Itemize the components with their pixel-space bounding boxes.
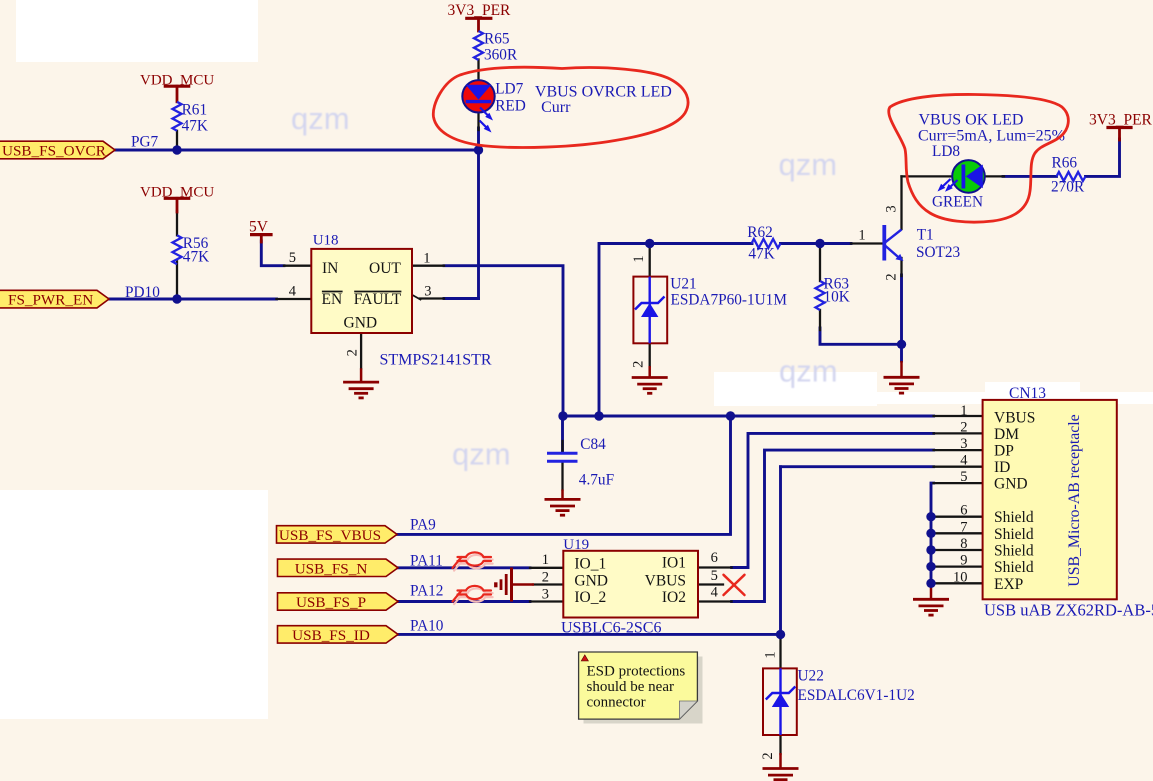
power port 3V3_PER top [467, 18, 491, 31]
wire R63 bottom to emitter junction [820, 328, 902, 344]
svg-text:GREEN: GREEN [932, 194, 983, 211]
svg-text:5: 5 [960, 469, 967, 485]
pin lead U21.1 [649, 244, 651, 277]
svg-text:270R: 270R [1051, 179, 1085, 196]
pin CN13.7 stub [931, 532, 983, 534]
ground under T1 [884, 361, 920, 393]
pin lead T1 base stub [851, 242, 883, 244]
pin CN13.3 stub [934, 449, 983, 451]
svg-text:qzm: qzm [779, 354, 838, 389]
svg-text:VBUS: VBUS [645, 573, 686, 590]
annotation ellipse VBUS OVRCR LED [433, 67, 688, 147]
ground under U22 [763, 753, 799, 781]
svg-text:5: 5 [289, 250, 296, 266]
svg-text:STMPS2141STR: STMPS2141STR [380, 352, 492, 369]
svg-text:1: 1 [631, 255, 647, 262]
svg-text:IO2: IO2 [662, 589, 686, 606]
svg-text:1: 1 [542, 552, 549, 568]
wire DP CN13 pin3 to U19 pin4 [732, 450, 934, 601]
no-ERC cross at U19 pin5 [724, 575, 745, 595]
svg-text:DM: DM [994, 426, 1019, 443]
svg-text:PA12: PA12 [410, 583, 443, 600]
svg-text:IO1: IO1 [662, 555, 686, 572]
svg-text:qzm: qzm [779, 147, 838, 182]
pin lead LD7 bottom [477, 102, 479, 131]
wire R66 to 3V3_PER stem [1086, 139, 1120, 176]
svg-text:C84: C84 [580, 436, 606, 453]
ground under C84 [545, 490, 581, 516]
capacitor C84 [547, 453, 578, 461]
svg-text:6: 6 [711, 550, 718, 566]
pin CN13.5 stub [934, 482, 983, 484]
pin lead R56 bottom [176, 261, 178, 299]
pin U19.3 stub [530, 600, 563, 602]
svg-text:3: 3 [960, 436, 967, 452]
svg-text:PD10: PD10 [125, 284, 160, 301]
svg-text:U21: U21 [670, 276, 696, 293]
svg-text:PA11: PA11 [410, 552, 443, 569]
svg-text:Curr: Curr [541, 99, 571, 116]
junction shield pin10 [926, 579, 935, 588]
pin lead R63 bottom [819, 310, 821, 330]
svg-text:4: 4 [289, 284, 297, 300]
svg-text:10K: 10K [824, 289, 850, 306]
svg-text:LD8: LD8 [932, 143, 960, 160]
wire 5V to IN [261, 241, 284, 266]
LED LD7 [462, 80, 494, 132]
pin lead R56 top [176, 211, 178, 235]
TVS diode U21 box [633, 277, 667, 344]
svg-text:360R: 360R [484, 47, 518, 64]
svg-text:LD7: LD7 [495, 81, 523, 98]
differential pair marker PA11 [453, 552, 493, 570]
pin lead C84 bottom [561, 463, 563, 490]
pin U18.3 slash mark [412, 295, 421, 300]
IC U19 box [563, 551, 698, 618]
junction R62/R63/T1 base [815, 239, 824, 248]
svg-text:47K: 47K [183, 249, 209, 266]
svg-text:SOT23: SOT23 [916, 244, 961, 261]
pin U19.5 stub [698, 583, 723, 585]
ground under U18 [343, 368, 379, 398]
pin lead R63 top [819, 244, 821, 282]
svg-text:Curr=5mA, Lum=25%: Curr=5mA, Lum=25% [918, 128, 1065, 145]
wire PA11 USB_FS_N [398, 566, 530, 569]
svg-text:USB_FS_P: USB_FS_P [296, 594, 366, 611]
white patch bottom-left [0, 490, 268, 719]
svg-text:2: 2 [542, 569, 549, 585]
svg-text:10: 10 [953, 569, 968, 585]
resistor R56 [173, 235, 182, 264]
power port VDD_MCU upper [165, 86, 188, 102]
net flag USB_FS_P [278, 593, 399, 611]
svg-text:3: 3 [424, 284, 431, 300]
resistor R62 [752, 239, 781, 248]
pin lead R65 bottom to LD7 [477, 60, 479, 86]
svg-text:3V3_PER: 3V3_PER [448, 2, 512, 19]
svg-text:Shield: Shield [994, 509, 1034, 526]
svg-text:EN: EN [322, 291, 343, 308]
svg-text:PA9: PA9 [410, 517, 436, 534]
sticky note ESD protections [579, 652, 703, 724]
svg-text:6: 6 [960, 503, 967, 519]
svg-text:Shield: Shield [994, 543, 1034, 560]
pin CN13.9 stub [931, 565, 983, 567]
resistor R65 [474, 31, 483, 60]
svg-text:ESDA7P60-1U1M: ESDA7P60-1U1M [671, 291, 788, 308]
svg-text:DP: DP [994, 443, 1014, 460]
svg-text:T1: T1 [917, 227, 934, 244]
wire main VBUS bus horizontal [563, 415, 934, 418]
net flag FS_PWR_EN [0, 290, 109, 308]
wire OUT to bus vertical [444, 266, 563, 416]
pin U18.4 EN stub [277, 298, 312, 300]
svg-text:GND: GND [994, 476, 1028, 493]
svg-text:USBLC6-2SC6: USBLC6-2SC6 [561, 620, 661, 637]
ground under CN13 shields [913, 584, 949, 615]
net flag USB_FS_N [278, 559, 399, 577]
svg-text:ESD protections: ESD protections [587, 664, 686, 680]
svg-text:VDD_MCU: VDD_MCU [140, 185, 214, 201]
wire PA10 USB_FS_ID [398, 633, 781, 636]
wire U21 junction to R62 [650, 242, 752, 245]
pin U19.2 stub [533, 583, 563, 585]
svg-text:2: 2 [884, 273, 900, 280]
svg-text:9: 9 [960, 553, 967, 569]
pin U19.4 stub [698, 600, 732, 602]
LED LD8 [938, 160, 985, 193]
svg-text:1: 1 [763, 651, 779, 658]
pin CN13.2 stub [934, 432, 983, 434]
svg-text:1: 1 [423, 250, 430, 266]
svg-text:USB_FS_N: USB_FS_N [295, 560, 368, 577]
svg-text:PG7: PG7 [131, 133, 159, 150]
svg-text:qzm: qzm [452, 437, 511, 472]
junction T1 emitter/R63/ground [897, 340, 906, 349]
pin U18.3 FAULT stub [420, 297, 444, 299]
svg-text:5V: 5V [249, 218, 269, 235]
svg-text:Shield: Shield [994, 526, 1034, 543]
junction bus/R62 riser [594, 411, 603, 420]
ground sideways at U19 pin2 [496, 568, 534, 602]
TVS diode U22 symbol [766, 668, 796, 735]
svg-text:2: 2 [960, 419, 967, 435]
svg-text:IN: IN [322, 260, 338, 277]
svg-text:4.7uF: 4.7uF [579, 472, 614, 489]
svg-text:8: 8 [960, 536, 967, 552]
svg-text:7: 7 [960, 519, 967, 535]
ground under U21 [632, 366, 668, 393]
wire LD7 cathode vertical down to FAULT row [477, 128, 480, 299]
svg-text:IO_2: IO_2 [574, 589, 606, 606]
wire PA12 USB_FS_P [398, 600, 530, 603]
svg-text:47K: 47K [182, 118, 208, 135]
junction PG7/R61 [172, 145, 181, 154]
net flag USB_FS_ID [278, 626, 399, 644]
svg-text:should be near: should be near [587, 679, 674, 695]
wire FS_PWR_EN horizontal [109, 298, 277, 301]
wire CN13 pin5 GND down shield chain [931, 483, 934, 584]
svg-text:4: 4 [711, 585, 719, 601]
pin lead U22.2 [779, 735, 781, 754]
svg-text:1: 1 [858, 228, 865, 244]
svg-text:USB_FS_ID: USB_FS_ID [292, 627, 370, 644]
pin CN13.8 stub [931, 549, 983, 551]
wire FAULT pin3 horizontal [444, 297, 479, 300]
pin CN13.6 stub [931, 516, 983, 518]
junction PD10/R56/EN [172, 294, 181, 303]
svg-text:RED: RED [495, 98, 526, 115]
svg-text:IO_1: IO_1 [574, 556, 606, 573]
svg-text:R61: R61 [182, 102, 208, 119]
svg-text:connector: connector [587, 694, 646, 710]
net flag USB_FS_VBUS [277, 526, 398, 544]
junction shield pin9 [926, 562, 935, 571]
white patch top-left [16, 0, 258, 62]
white patch behind CN13 title [985, 382, 1080, 404]
pin lead LD8 right [983, 175, 1004, 177]
svg-text:47K: 47K [748, 246, 774, 263]
svg-text:U22: U22 [798, 668, 824, 685]
net flag USB_FS_OVCR [0, 141, 115, 159]
TVS diode U22 box [763, 668, 797, 735]
differential pair marker PA12 [453, 586, 493, 604]
resistor R61 [173, 102, 182, 131]
pin lead LD8 left [902, 175, 964, 177]
svg-text:2: 2 [631, 361, 647, 368]
svg-text:U18: U18 [313, 232, 339, 248]
svg-text:FS_PWR_EN: FS_PWR_EN [8, 292, 93, 309]
svg-text:EXP: EXP [994, 576, 1023, 593]
wire ID vertical to CN13 pin4 [779, 467, 782, 635]
pin lead C84 top black part [561, 441, 563, 452]
pin lead R61 bottom [176, 131, 178, 150]
svg-text:USB_FS_VBUS: USB_FS_VBUS [279, 527, 381, 544]
svg-text:2: 2 [345, 349, 361, 356]
wire LED row to R66 [1003, 175, 1057, 178]
pin U18.1 OUT stub [412, 265, 444, 267]
resistor R66 [1057, 172, 1086, 181]
pin CN13.4 stub [934, 466, 983, 468]
wire PA9 USB_FS_VBUS to bus [397, 416, 731, 534]
junction shield pin8 [926, 545, 935, 554]
svg-text:FAULT: FAULT [354, 291, 402, 308]
junction LD7/OVCR/FAULT [474, 145, 483, 154]
svg-text:CN13: CN13 [1009, 385, 1046, 402]
svg-text:U19: U19 [563, 537, 589, 553]
pin U18.5 IN stub [284, 265, 311, 267]
junction bus/C84/OUT [558, 411, 567, 420]
pin CN13.1 stub [934, 415, 983, 417]
svg-text:R65: R65 [484, 31, 510, 48]
svg-text:VBUS OVRCR LED: VBUS OVRCR LED [535, 84, 672, 101]
wire bus up to R62 row [599, 244, 650, 417]
svg-text:USB_FS_OVCR: USB_FS_OVCR [2, 143, 107, 160]
IC U18 box [311, 249, 412, 333]
svg-text:GND: GND [344, 315, 378, 332]
svg-text:5: 5 [711, 568, 718, 584]
svg-text:USB_Micro-AB receptacle: USB_Micro-AB receptacle [1066, 414, 1083, 586]
junction shield pin7 [926, 529, 935, 538]
transistor T1 [884, 225, 903, 261]
annotation blob VBUS OK LED [889, 94, 1069, 222]
svg-text:ID: ID [994, 459, 1010, 476]
svg-text:R66: R66 [1052, 155, 1078, 172]
svg-text:3V3_PER: 3V3_PER [1089, 112, 1153, 129]
svg-text:qzm: qzm [291, 101, 350, 136]
pin U19.6 stub [698, 566, 732, 568]
svg-text:3: 3 [884, 205, 900, 212]
svg-text:OUT: OUT [369, 260, 401, 277]
svg-text:3: 3 [542, 587, 549, 603]
svg-text:ESDALC6V1-1U2: ESDALC6V1-1U2 [798, 687, 915, 704]
connector CN13 box [983, 400, 1117, 599]
pin U18.2 GND stub [360, 333, 362, 368]
resistor R63 [816, 281, 825, 310]
power port VDD_MCU lower [165, 198, 188, 212]
junction U21 pin1 node [645, 239, 654, 248]
svg-text:Shield: Shield [994, 559, 1034, 576]
wire T1 emitter down to ground junction [900, 275, 903, 361]
pin lead T1 emitter stub [900, 258, 902, 276]
pin U19.1 stub [530, 567, 563, 569]
wire R62 to T1 base [781, 242, 852, 245]
pin lead U21.2 [649, 343, 651, 366]
svg-text:GND: GND [574, 573, 608, 590]
svg-text:2: 2 [760, 752, 776, 759]
wire ID horizontal to CN13 [781, 465, 934, 468]
pin CN13.10 stub [931, 582, 983, 584]
white patch center-right [714, 372, 877, 406]
junction ID/U22 [776, 630, 785, 639]
power port 5V [252, 235, 271, 242]
svg-text:USB uAB ZX62RD-AB-5P: USB uAB ZX62RD-AB-5P [984, 601, 1153, 620]
svg-text:VBUS OK LED: VBUS OK LED [919, 112, 1024, 129]
pin lead C84 top [561, 416, 564, 452]
wire USB_FS_OVCR horizontal [115, 149, 479, 152]
TVS diode U21 symbol [635, 277, 665, 344]
svg-text:PA10: PA10 [410, 618, 444, 635]
white patch band right [860, 392, 1153, 404]
svg-text:4: 4 [960, 453, 968, 469]
junction shield pin6 [926, 512, 935, 521]
pin lead U22.1 [779, 634, 781, 668]
svg-text:R62: R62 [747, 224, 773, 241]
pin lead T1 collector vertical [900, 176, 902, 229]
svg-text:1: 1 [960, 403, 967, 419]
wire DM CN13 pin2 to U19 pin6 [732, 433, 934, 567]
svg-text:VDD_MCU: VDD_MCU [140, 73, 214, 89]
svg-text:VBUS: VBUS [994, 409, 1035, 426]
power port 3V3_PER right [1108, 128, 1131, 141]
junction bus/PA9/CN13 pin1 [726, 411, 735, 420]
